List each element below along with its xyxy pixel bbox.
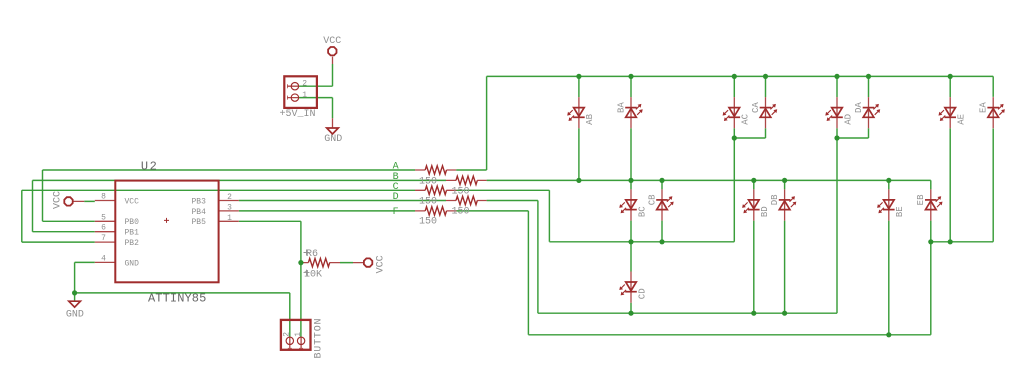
svg-text:CD: CD xyxy=(637,288,647,299)
svg-text:BE: BE xyxy=(895,206,905,217)
svg-text:+5V_IN: +5V_IN xyxy=(280,109,316,120)
svg-text:VCC: VCC xyxy=(53,191,64,209)
svg-text:PB4: PB4 xyxy=(192,208,207,217)
svg-text:DB: DB xyxy=(770,194,780,205)
svg-text:PB0: PB0 xyxy=(125,218,140,227)
svg-text:GND: GND xyxy=(324,134,342,145)
svg-text:CA: CA xyxy=(751,102,761,113)
svg-text:8: 8 xyxy=(101,193,106,202)
svg-text:ATTINY85: ATTINY85 xyxy=(148,292,206,306)
svg-text:CB: CB xyxy=(647,194,657,205)
svg-text:BD: BD xyxy=(760,206,770,217)
svg-text:AB: AB xyxy=(585,113,595,124)
svg-text:VCC: VCC xyxy=(125,197,140,206)
svg-text:BUTTON: BUTTON xyxy=(314,318,325,359)
svg-text:EB: EB xyxy=(916,194,926,205)
svg-text:GND: GND xyxy=(125,259,140,268)
svg-text:2: 2 xyxy=(283,332,292,337)
svg-text:4: 4 xyxy=(101,254,106,263)
svg-text:150: 150 xyxy=(452,206,470,217)
svg-text:VCC: VCC xyxy=(323,36,341,47)
svg-text:AC: AC xyxy=(741,113,751,124)
svg-text:A: A xyxy=(393,162,399,173)
svg-text:U2: U2 xyxy=(141,159,158,173)
svg-text:5: 5 xyxy=(101,213,106,222)
svg-text:1: 1 xyxy=(227,214,232,223)
svg-text:GND: GND xyxy=(66,310,84,321)
svg-text:150: 150 xyxy=(452,187,470,198)
svg-text:D: D xyxy=(393,192,399,203)
svg-text:VCC: VCC xyxy=(376,255,387,273)
svg-text:150: 150 xyxy=(419,196,437,207)
svg-text:AD: AD xyxy=(843,114,853,125)
svg-text:PB3: PB3 xyxy=(192,197,207,206)
svg-text:6: 6 xyxy=(101,224,106,233)
svg-text:2: 2 xyxy=(227,193,232,202)
svg-text:BA: BA xyxy=(616,102,626,113)
svg-text:PB1: PB1 xyxy=(125,229,140,238)
svg-text:150: 150 xyxy=(419,176,437,187)
svg-text:1: 1 xyxy=(294,332,303,337)
svg-text:BC: BC xyxy=(637,206,647,217)
svg-text:150: 150 xyxy=(419,217,437,228)
svg-text:PB2: PB2 xyxy=(125,239,140,248)
svg-text:3: 3 xyxy=(227,204,232,213)
svg-text:R6: R6 xyxy=(306,249,318,260)
svg-text:AE: AE xyxy=(957,114,967,125)
svg-text:EA: EA xyxy=(979,102,989,113)
svg-text:1: 1 xyxy=(302,91,307,100)
svg-text:2: 2 xyxy=(302,80,307,89)
svg-text:7: 7 xyxy=(101,234,106,243)
svg-text:DA: DA xyxy=(854,102,864,113)
svg-text:F: F xyxy=(393,207,399,218)
svg-text:PB5: PB5 xyxy=(192,218,207,227)
